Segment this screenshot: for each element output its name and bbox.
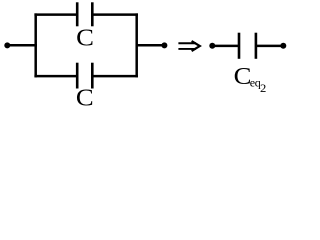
svg-text:C: C	[76, 85, 94, 110]
svg-text:2: 2	[260, 83, 267, 95]
svg-text:C: C	[76, 25, 94, 52]
